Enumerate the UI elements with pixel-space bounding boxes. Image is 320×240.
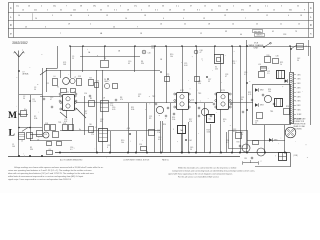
svg-text:IFT3: IFT3 [221,90,225,92]
svg-text:38: 38 [226,9,228,11]
svg-text:C24: C24 [191,100,194,102]
svg-text:5: 5 [47,9,48,11]
svg-text:C30: C30 [276,56,279,58]
svg-text:Component terminals and connec: Component terminals and connecting leads… [172,170,255,173]
svg-text:8: 8 [107,147,108,149]
svg-text:MR3 PU: MR3 PU [257,35,263,37]
svg-text:37: 37 [190,6,192,8]
svg-text:S1a: S1a [24,109,27,111]
svg-text:22: 22 [184,23,186,25]
svg-text:C40: C40 [148,53,151,55]
svg-text:1.5: 1.5 [267,73,269,75]
svg-text:R8: R8 [100,121,102,123]
svg-text:3: 3 [114,9,115,11]
svg-text:4: 4 [87,9,88,11]
svg-text:0.05: 0.05 [112,109,115,111]
svg-text:L2: L2 [21,141,23,143]
svg-text:Voltage readings are shown wit: Voltage readings are shown within square… [14,166,104,169]
svg-text:10k: 10k [121,142,124,144]
svg-text:28: 28 [127,9,129,11]
svg-text:C44: C44 [189,140,192,142]
svg-text:10: 10 [22,9,24,11]
svg-text:47: 47 [225,76,227,78]
svg-text:AERIAL: AERIAL [23,73,29,76]
svg-text:1k: 1k [223,121,225,123]
svg-text:28: 28 [169,9,171,11]
svg-text:4: 4 [183,18,184,20]
svg-text:27: 27 [134,6,136,8]
svg-text:OA70: OA70 [104,80,109,83]
svg-text:55: 55 [297,6,299,8]
svg-text:C: C [10,7,12,10]
svg-text:L10: L10 [44,134,47,136]
svg-text:6.8k: 6.8k [34,118,37,120]
svg-text:IFT2: IFT2 [180,90,184,92]
svg-text:4: 4 [288,15,289,17]
svg-text:50: 50 [34,89,36,91]
svg-text:R20: R20 [267,55,270,57]
svg-text:C8: C8 [37,140,39,142]
svg-text:0.1: 0.1 [70,149,72,151]
svg-text:L5: L5 [305,46,307,48]
svg-text:spond with those appearing on: spond with those appearing on the circui… [168,173,232,176]
svg-text:R1: R1 [57,87,59,89]
svg-text:38: 38 [80,6,82,8]
svg-text:4: 4 [41,6,42,8]
svg-text:8: 8 [197,9,198,11]
svg-text:25: 25 [256,23,258,25]
svg-text:C18: C18 [283,34,286,36]
svg-text:R3: R3 [89,78,91,80]
svg-text:ALL VOLTAGES MEASURED: ALL VOLTAGES MEASURED [60,159,83,162]
svg-text:5: 5 [52,15,53,17]
svg-text:2.2k: 2.2k [232,63,235,65]
svg-text:For this all service cut sheet: For this all service cut sheet Airfix 19… [178,176,219,179]
svg-text:T1: T1 [67,92,69,94]
svg-text:18: 18 [140,33,142,35]
svg-text:2.2k: 2.2k [33,101,36,103]
svg-text:19: 19 [224,15,226,17]
svg-text:C: C [310,7,312,10]
svg-text:taken with set operating from: taken with set operating from batteries … [8,172,94,175]
svg-text:C7k: C7k [91,134,94,136]
svg-text:208: 208 [63,64,66,66]
svg-text:30: 30 [297,60,299,62]
svg-text:TR1: TR1 [58,122,61,124]
svg-text:41: 41 [218,6,220,8]
svg-text:7: 7 [66,6,67,8]
svg-text:6.8k: 6.8k [131,109,134,111]
svg-text:C18: C18 [45,123,48,125]
svg-text:L: L [9,129,15,139]
svg-text:4: 4 [176,6,177,8]
svg-text:R: R [310,24,312,27]
svg-text:R5: R5 [90,98,92,100]
svg-text:MR1 MR2: MR1 MR2 [254,31,261,33]
svg-text:455: 455 [215,69,218,71]
svg-text:19: 19 [106,15,108,17]
svg-text:30: 30 [23,98,25,100]
svg-text:ceiver was operating from batt: ceiver was operating from batteries at 1… [8,169,92,172]
svg-text:35: 35 [60,9,62,11]
svg-text:C12: C12 [46,83,49,85]
svg-text:20: 20 [113,27,115,29]
svg-text:21: 21 [16,6,18,8]
svg-text:15: 15 [273,9,275,11]
svg-text:signal major. It was expresse: signal major. It was expressed to a cres… [8,178,72,181]
svg-text:47: 47 [200,52,202,54]
svg-text:WAVE CHANGE: WAVE CHANGE [249,44,264,47]
svg-text:MR5: MR5 [274,140,278,142]
svg-text:330: 330 [30,149,33,151]
svg-text:L8: L8 [103,98,105,100]
svg-text:3: 3 [281,6,282,8]
svg-text:18: 18 [70,15,72,17]
svg-text:15B: 15B [244,158,247,160]
svg-text:85: 85 [138,96,140,98]
svg-text:41: 41 [211,9,213,11]
svg-text:M: M [10,33,12,35]
svg-text:36: 36 [289,9,291,11]
svg-text:53: 53 [53,6,55,8]
svg-text:16: 16 [148,6,150,8]
svg-text:25: 25 [72,58,74,60]
svg-text:1k: 1k [85,113,87,115]
svg-text:18: 18 [208,23,210,25]
svg-text:Rv: Rv [79,129,81,131]
svg-text:12: 12 [266,15,268,17]
svg-text:0.04: 0.04 [184,65,187,67]
svg-text:4: 4 [88,15,89,17]
svg-text:470: 470 [189,121,192,123]
svg-text:4: 4 [265,6,266,8]
svg-text:( COMPONENT SYMBOL NOTICE: ( COMPONENT SYMBOL NOTICE [123,160,150,162]
svg-text:14: 14 [232,23,234,25]
svg-text:59: 59 [93,6,95,8]
svg-text:19: 19 [68,23,70,25]
svg-text:1.5k: 1.5k [157,132,160,134]
svg-text:15: 15 [298,23,300,25]
svg-text:R16: R16 [163,124,166,126]
svg-text:38: 38 [249,6,251,8]
svg-text:5: 5 [141,9,142,11]
svg-text:7: 7 [245,18,246,20]
svg-text:33: 33 [100,9,102,11]
svg-text:CONNECTOR: CONNECTOR [294,121,305,123]
svg-text:10: 10 [125,18,127,20]
svg-text:12: 12 [200,33,202,35]
svg-text:18: 18 [300,15,302,17]
svg-text:50: 50 [190,149,192,151]
svg-text:37: 37 [241,9,243,11]
svg-text:C26: C26 [127,128,130,130]
svg-text:10k: 10k [170,56,173,58]
svg-text:4: 4 [233,6,234,8]
svg-text:65: 65 [128,63,130,65]
svg-text:15: 15 [204,6,206,8]
svg-text:39k: 39k [141,63,144,65]
svg-text:TR4: TR4 [270,111,273,113]
svg-text:44: 44 [240,34,242,36]
svg-text:16: 16 [160,23,162,25]
svg-text:0.01: 0.01 [158,139,161,141]
svg-text:C14: C14 [84,93,87,95]
svg-text:11: 11 [280,23,282,25]
svg-text:VIEWED FROM: VIEWED FROM [294,124,306,126]
svg-text:53: 53 [183,9,185,11]
svg-text:R: R [10,24,12,27]
svg-text:2: 2 [90,23,91,25]
svg-text:73: 73 [295,31,297,33]
svg-text:within limits of measurement e: within limits of measurement expressed t… [8,175,84,178]
svg-text:C9: C9 [104,58,106,60]
svg-text:14: 14 [35,18,37,20]
svg-text:MR3: MR3 [260,105,264,107]
svg-text:2: 2 [261,161,262,163]
svg-text:L6: L6 [54,76,56,78]
svg-text:L7: L7 [95,127,97,129]
svg-text:26: 26 [257,9,259,11]
svg-text:10k: 10k [268,91,271,93]
svg-text:26: 26 [28,6,30,8]
svg-text:47k: 47k [120,99,123,101]
svg-text:6: 6 [120,6,121,8]
svg-text:C19: C19 [63,123,66,125]
svg-text:3063/1502: 3063/1502 [12,41,28,45]
svg-text:R30: R30 [237,142,240,144]
svg-text:1k: 1k [280,64,282,66]
svg-text:9: 9 [304,9,305,11]
svg-text:24: 24 [73,9,75,11]
svg-text:TR2: TR2 [152,96,155,98]
svg-text:C14: C14 [139,144,142,146]
svg-text:(15B): (15B) [294,155,299,157]
svg-text:10: 10 [18,15,20,17]
svg-text:L14: L14 [258,64,261,66]
svg-text:39: 39 [225,31,227,33]
svg-text:4.7k: 4.7k [248,94,251,96]
svg-text:C6: C6 [49,149,51,151]
svg-text:22k: 22k [198,83,201,85]
svg-text:TR3: TR3 [198,93,201,95]
svg-text:C16: C16 [96,81,99,83]
svg-text:42: 42 [34,9,36,11]
svg-text:25: 25 [255,123,257,125]
svg-text:36: 36 [162,6,164,8]
svg-text:0.1: 0.1 [244,74,246,76]
svg-text:10k: 10k [151,48,154,50]
svg-text:0.04: 0.04 [233,131,236,133]
svg-text:R9: R9 [149,118,151,120]
svg-text:R26: R26 [286,106,289,108]
svg-text:6: 6 [155,9,156,11]
svg-text:While the electrodes of a coil: While the electrodes of a coil to time f… [178,167,236,170]
svg-text:39: 39 [208,81,210,83]
svg-text:7: 7 [60,33,61,35]
svg-text:14: 14 [107,6,109,8]
svg-text:PAGE 2 ): PAGE 2 ) [162,159,169,162]
svg-text:47: 47 [50,99,52,101]
svg-text:100k: 100k [207,132,211,134]
svg-text:3: 3 [45,27,46,29]
svg-text:18: 18 [144,15,146,17]
svg-text:8k: 8k [241,99,243,101]
svg-text:41: 41 [272,31,274,33]
svg-text:23: 23 [25,27,27,29]
svg-text:UNIT: UNIT [254,48,259,50]
svg-text:7: 7 [137,27,138,29]
svg-text:6: 6 [163,18,164,20]
svg-text:R6: R6 [89,124,91,126]
svg-text:0.01: 0.01 [64,121,67,123]
svg-text:5.6k: 5.6k [172,119,175,121]
svg-text:140: 140 [12,146,15,148]
svg-text:MR2: MR2 [260,90,264,92]
svg-text:19: 19 [203,18,205,20]
svg-text:C13: C13 [78,76,81,78]
svg-text:M: M [8,111,17,121]
